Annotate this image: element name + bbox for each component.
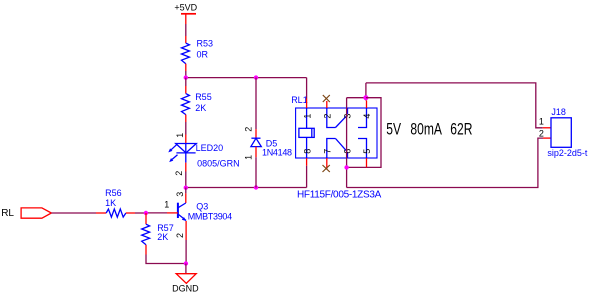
- relay pin5 stub: [366, 158, 368, 167]
- wire node to R55: [185, 78, 187, 86]
- wire top right rail to J18 pin1: [366, 83, 543, 128]
- svg-text:2K: 2K: [195, 103, 206, 113]
- no-connect X pin7: [323, 165, 330, 172]
- no-connect X pin2: [323, 95, 330, 102]
- svg-text:1: 1: [539, 116, 544, 126]
- wire top rail: [186, 77, 307, 79]
- svg-text:62R: 62R: [450, 121, 472, 139]
- node junction emitter/ground: [184, 261, 188, 265]
- svg-text:0805/GRN: 0805/GRN: [197, 158, 240, 168]
- resistor R55: [182, 94, 190, 115]
- wire R55 to LED: [185, 115, 187, 122]
- svg-text:R56: R56: [105, 188, 122, 198]
- wire LED to node: [185, 163, 187, 172]
- node junction R53/R55: [184, 75, 188, 79]
- svg-text:J18: J18: [551, 107, 566, 117]
- svg-text:2: 2: [539, 129, 544, 139]
- svg-text:1: 1: [243, 155, 253, 160]
- relay pin1 stub: [306, 99, 308, 109]
- ground DGND: [176, 274, 196, 284]
- svg-text:R55: R55: [195, 92, 212, 102]
- diode D5: [251, 138, 261, 146]
- svg-text:5: 5: [362, 149, 372, 154]
- node junction pin4: [363, 95, 368, 100]
- wire D5 to bottom rail: [255, 147, 257, 158]
- transistor Q3: [178, 203, 186, 221]
- relay coil: [299, 108, 314, 158]
- svg-text:LED20: LED20: [196, 143, 224, 153]
- svg-text:7: 7: [322, 149, 332, 154]
- relay contact B: [327, 139, 367, 159]
- connector J18 body: [551, 118, 571, 148]
- resistor R57: [142, 224, 150, 245]
- svg-text:1N4148: 1N4148: [262, 148, 292, 158]
- svg-text:3: 3: [175, 192, 185, 197]
- relay RL1 body: [296, 108, 377, 158]
- svg-text:R53: R53: [197, 39, 214, 49]
- svg-text:2: 2: [175, 233, 185, 238]
- svg-text:DGND: DGND: [172, 284, 199, 294]
- svg-text:0R: 0R: [197, 50, 209, 60]
- wire node to R57: [145, 213, 147, 224]
- svg-text:Q3: Q3: [196, 202, 208, 212]
- node junction LED/Q3: [184, 186, 188, 190]
- svg-text:2K: 2K: [157, 232, 168, 242]
- node junction D5 bottom: [254, 185, 258, 189]
- resistor R56: [106, 209, 126, 217]
- wire bottom rail to J18 pin2: [347, 138, 543, 187]
- wire Q3 emitter: [185, 221, 187, 240]
- svg-text:8: 8: [302, 149, 312, 154]
- svg-text:1K: 1K: [105, 198, 116, 208]
- svg-text:2: 2: [322, 114, 332, 119]
- svg-text:1: 1: [164, 200, 169, 210]
- relay pin2 stub: [326, 101, 328, 108]
- wire R57 to ground rail: [145, 245, 147, 255]
- svg-text:sip2-2d5-t: sip2-2d5-t: [547, 148, 588, 158]
- node junction base/R57: [144, 211, 148, 215]
- svg-text:RL1: RL1: [291, 95, 308, 105]
- relay pin4 stub: [366, 101, 368, 109]
- svg-text:+5VD: +5VD: [174, 2, 197, 12]
- wire to ground: [185, 264, 187, 274]
- LED LED20: [171, 144, 196, 163]
- wire RL to R56: [51, 212, 96, 214]
- relay pin8 stub: [306, 158, 308, 166]
- relay contact A: [327, 108, 367, 128]
- svg-text:RL: RL: [1, 208, 14, 219]
- power +5VD bar symbol: [181, 13, 196, 15]
- wire collector rail: [186, 187, 307, 189]
- resistor R53: [182, 43, 190, 64]
- svg-text:80mA: 80mA: [410, 121, 442, 139]
- wire R53 to node: [185, 64, 187, 71]
- wire pin4 loop right: [347, 98, 381, 168]
- wire rail corner down to relay pin1: [306, 78, 308, 99]
- wire pin4 up: [365, 83, 367, 101]
- wire Q3 base: [167, 212, 178, 214]
- svg-text:HF115F/005-1ZS3A: HF115F/005-1ZS3A: [297, 190, 382, 201]
- svg-text:1: 1: [302, 114, 312, 119]
- svg-text:MMBT3904: MMBT3904: [188, 211, 232, 221]
- relay pin7 stub: [326, 158, 328, 170]
- wire pin3 vertical through relay: [346, 98, 348, 188]
- wire D5 branch top: [255, 78, 257, 130]
- svg-text:2: 2: [244, 127, 254, 132]
- wire junction to pin3: [347, 97, 366, 99]
- relay rating text: [386, 121, 472, 139]
- svg-text:5V: 5V: [386, 121, 401, 139]
- wire R56 to node: [126, 212, 135, 214]
- node junction pin6: [344, 165, 348, 169]
- svg-text:2: 2: [174, 171, 184, 176]
- svg-text:4: 4: [362, 114, 372, 119]
- wire node to Q3 collector: [185, 188, 187, 194]
- node junction D5 top: [254, 75, 258, 79]
- wire +5VD to R53: [185, 14, 187, 24]
- svg-text:1: 1: [175, 133, 185, 138]
